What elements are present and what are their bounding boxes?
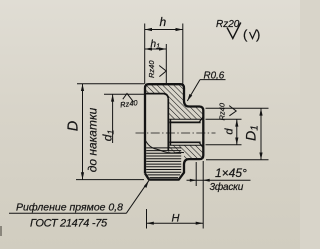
hatching of section xyxy=(140,80,210,162)
wire: H dimension line xyxy=(147,222,204,224)
wire: h left extension line xyxy=(144,24,146,85)
svg-text:ГОСТ 21474 -75: ГОСТ 21474 -75 xyxy=(30,218,108,230)
surface mark Rz40 (rotated, on d dim line) xyxy=(229,106,236,116)
svg-text:h: h xyxy=(160,15,167,29)
svg-text:): ) xyxy=(256,27,260,42)
wire: H left extension line xyxy=(146,209,148,229)
wire: D top extension line xyxy=(77,83,144,85)
leader line to knurl xyxy=(126,181,148,214)
chamfer ext line 2 + H right ext xyxy=(202,161,204,229)
svg-text:до накатки: до накатки xyxy=(86,107,100,172)
recess top line xyxy=(146,94,169,99)
wire: d top extension line xyxy=(206,118,242,120)
break line (local section boundary) xyxy=(145,140,184,153)
wire: d bottom extension line xyxy=(206,144,242,146)
svg-text:H: H xyxy=(172,213,180,225)
wire: d1 extension line xyxy=(104,93,145,95)
thread entry chamfer bottom xyxy=(199,142,203,147)
svg-text:D: D xyxy=(66,121,82,131)
thread major line bottom xyxy=(169,144,203,146)
thread bore line bottom xyxy=(169,141,200,143)
part body outline (section) xyxy=(145,84,203,179)
svg-text:Рифление прямое 0,8: Рифление прямое 0,8 xyxy=(16,202,123,214)
wire: D1 bottom extension line xyxy=(206,159,269,161)
wire: h right extension line xyxy=(182,24,184,85)
wire: D bottom extension line xyxy=(76,179,144,181)
surface mark Rz40 (rotated, on h1 ext line) xyxy=(159,66,166,77)
thread entry chamfer top xyxy=(199,117,203,123)
thread hole end xyxy=(169,119,171,145)
svg-text:Rz40: Rz40 xyxy=(218,102,227,120)
svg-text:1×45°: 1×45° xyxy=(215,166,247,180)
wire: h dimension line xyxy=(145,29,183,31)
chamfer dim line left part xyxy=(187,179,251,181)
svg-text:Rz20: Rz20 xyxy=(216,19,240,30)
centerline axis xyxy=(136,132,216,134)
wire: h1 extension line xyxy=(165,44,167,84)
wire: D1 dimension line xyxy=(260,108,262,160)
recess bottom face line xyxy=(167,99,169,151)
wire: h1 dimension line xyxy=(145,48,167,50)
svg-text:(: ( xyxy=(243,27,248,42)
wire: d1 dimension line (half) xyxy=(112,94,114,143)
chamfer ext line 1 xyxy=(195,162,197,186)
leader line xyxy=(187,80,200,101)
shelf / underline xyxy=(9,212,126,214)
svg-text:Rz40: Rz40 xyxy=(147,60,156,78)
knurl lines (straight knurling) xyxy=(146,148,181,178)
svg-text:R0,6: R0,6 xyxy=(204,70,225,81)
wire: d dimension line xyxy=(236,119,238,145)
thread bore line top xyxy=(169,121,200,123)
surface mark Rz40 (top, on d1 extension) xyxy=(123,94,134,103)
thread major line top xyxy=(169,118,203,120)
leader shelf xyxy=(200,79,226,81)
svg-text:3фаски: 3фаски xyxy=(210,181,244,193)
wire: D1 top extension line xyxy=(206,107,269,109)
svg-text:d: d xyxy=(224,128,236,135)
scan smudge at left edge xyxy=(0,226,2,236)
wire: D dimension line xyxy=(82,84,84,180)
